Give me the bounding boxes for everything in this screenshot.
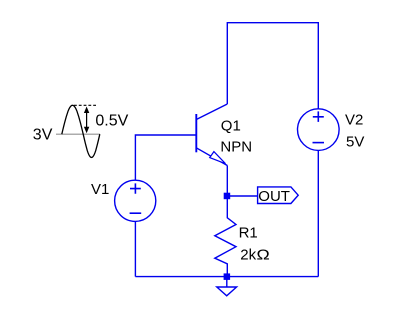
wire: node to OUT flag [227,195,257,197]
svg-text:V1: V1 [91,181,109,198]
wire: emitter down to OUT node [226,166,228,197]
svg-text:3V: 3V [33,127,53,144]
wire: bottom ground rail [135,276,318,278]
svg-text:V2: V2 [345,111,363,128]
svg-text:5V: 5V [346,133,364,150]
svg-text:0.5V: 0.5V [95,112,128,129]
svg-text:2k: 2k [240,247,256,264]
svg-text:NPN: NPN [220,138,252,155]
wire: V1 bottom to ground rail [134,221,136,276]
net flag OUT [258,187,299,204]
wire: base to V1 top [135,135,196,180]
annotation: amplitude arrow 0.5V [84,107,89,134]
svg-text:Q1: Q1 [221,118,241,135]
node junction at OUT [224,193,231,200]
resistor R1 [215,196,236,277]
voltage source V1 [115,180,156,221]
annotation: axis line of input sine [56,133,100,135]
wire: V2 bottom to ground rail [317,150,319,276]
transistor Q1 [196,104,227,166]
ground [217,277,237,296]
voltage source V2 [298,109,340,151]
svg-text:Ω: Ω [257,247,270,263]
annotation: dashed peak level line [74,104,98,106]
svg-text:OUT: OUT [258,188,290,205]
annotation: sine wave [62,105,100,157]
node junction at ground [224,273,231,280]
svg-text:R1: R1 [239,225,258,242]
wire: top rail collector to V2 [227,23,318,109]
